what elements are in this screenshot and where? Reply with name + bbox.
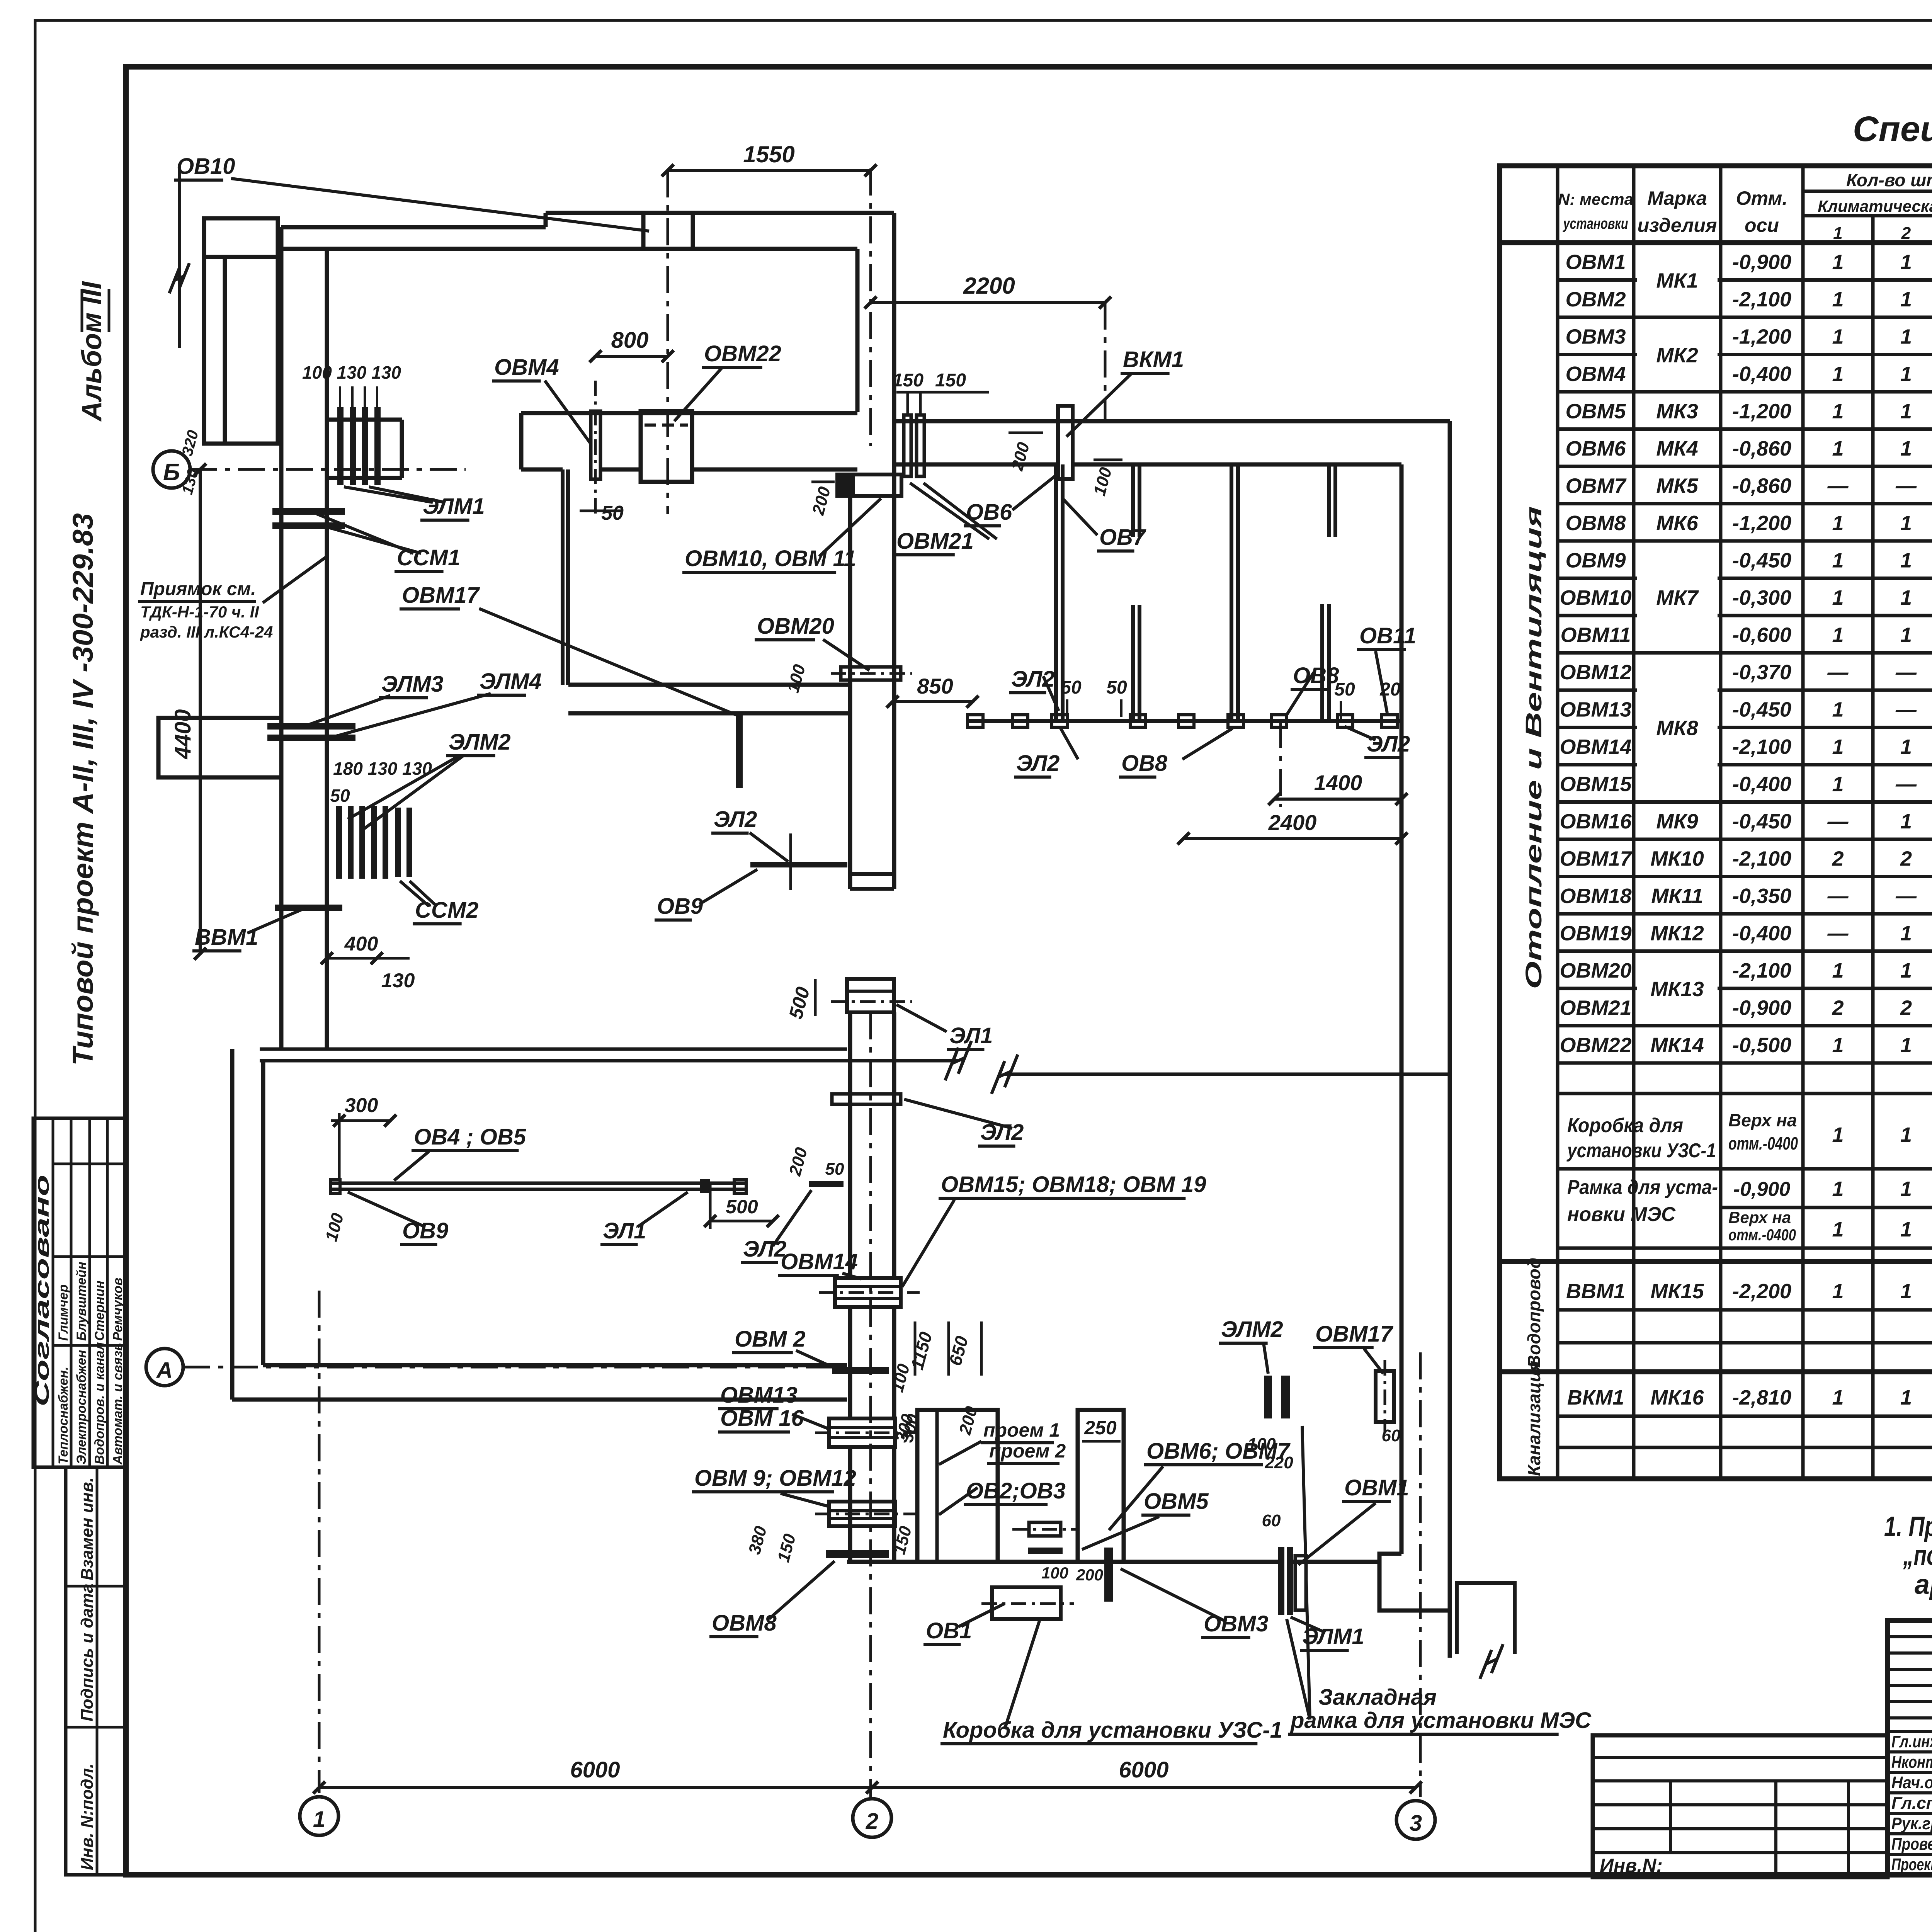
- VKM1 plate: [1058, 406, 1073, 479]
- svg-text:1: 1: [1832, 1280, 1844, 1303]
- svg-text:Кол-во штук: Кол-во штук: [1846, 170, 1932, 190]
- svg-text:Марка: Марка: [1647, 187, 1707, 209]
- svg-text:Отопление и Вентиляция: Отопление и Вентиляция: [1521, 506, 1546, 989]
- svg-text:ЭЛ2: ЭЛ2: [1016, 751, 1060, 776]
- svg-text:проем 2: проем 2: [989, 1440, 1066, 1462]
- svg-text:ЭЛМ4: ЭЛМ4: [480, 669, 542, 694]
- svg-text:разд. III л.КС4-24: разд. III л.КС4-24: [140, 623, 273, 641]
- lower plan bottom line: [847, 1560, 917, 1564]
- svg-text:1: 1: [1900, 735, 1912, 759]
- svg-text:ЭЛМ2: ЭЛМ2: [449, 730, 511, 755]
- bottom right open rect: [1457, 1583, 1515, 1654]
- svg-text:Инв. N:подл.: Инв. N:подл.: [78, 1764, 97, 1870]
- svg-text:1: 1: [1900, 400, 1912, 423]
- svg-text:—: —: [1827, 474, 1849, 497]
- svg-text:Рук.груп.: Рук.груп.: [1891, 1814, 1932, 1833]
- axis A dash line: [183, 1366, 847, 1369]
- break line between plans lower: [1005, 1073, 1450, 1076]
- svg-text:оси: оси: [1745, 214, 1779, 236]
- dash axis under OB8 opening: [1279, 721, 1282, 807]
- svg-text:новки МЭС: новки МЭС: [1567, 1203, 1676, 1226]
- svg-text:50: 50: [330, 786, 350, 806]
- svg-text:ОВМ18: ОВМ18: [1560, 884, 1631, 908]
- svg-text:250: 250: [1084, 1417, 1117, 1439]
- svg-text:1: 1: [1832, 735, 1844, 759]
- floor line of upper plan rooms: [968, 719, 1401, 723]
- svg-text:—: —: [1895, 884, 1917, 908]
- svg-text:—: —: [1827, 884, 1849, 908]
- svg-text:ОВ4 ; ОВ5: ОВ4 ; ОВ5: [414, 1124, 526, 1150]
- svg-text:200: 200: [1076, 1566, 1103, 1584]
- svg-text:ОВМ8: ОВМ8: [1565, 512, 1626, 535]
- svg-text:1: 1: [1832, 698, 1844, 721]
- svg-text:„по месту” в местах прохода: „по месту” в местах прохода вертикальных…: [1903, 1540, 1932, 1571]
- svg-text:Рамка для уста-: Рамка для уста-: [1567, 1176, 1718, 1199]
- svg-text:отм.-0400: отм.-0400: [1728, 1133, 1798, 1153]
- lower plan left wall: [230, 1049, 235, 1400]
- svg-text:1: 1: [1832, 959, 1844, 982]
- svg-text:1: 1: [1900, 959, 1912, 982]
- svg-text:А: А: [156, 1358, 173, 1383]
- svg-text:ОВМ 2: ОВМ 2: [735, 1327, 806, 1352]
- svg-text:ОВМ22: ОВМ22: [1560, 1034, 1631, 1057]
- svg-text:МК11: МК11: [1651, 884, 1703, 908]
- dims 400 130: [327, 957, 410, 960]
- svg-text:ОВ2;ОВ3: ОВ2;ОВ3: [966, 1478, 1066, 1503]
- svg-text:Коробка для: Коробка для: [1567, 1114, 1683, 1137]
- svg-text:ОВМ13: ОВМ13: [720, 1383, 798, 1408]
- svg-text:арматурных каркасов.: арматурных каркасов.: [1915, 1569, 1932, 1600]
- svg-text:1: 1: [1832, 1123, 1844, 1146]
- svg-text:6000: 6000: [1119, 1757, 1168, 1782]
- svg-text:220: 220: [1264, 1453, 1293, 1472]
- axis 2 upper dash line: [869, 168, 872, 446]
- svg-text:100: 100: [1247, 1435, 1276, 1454]
- svg-text:проем 1: проем 1: [983, 1419, 1060, 1441]
- svg-text:ОВМ19: ОВМ19: [1560, 922, 1631, 945]
- svg-text:ОВМ16: ОВМ16: [1560, 810, 1632, 833]
- svg-text:1: 1: [1900, 810, 1912, 833]
- svg-text:Б: Б: [163, 459, 180, 486]
- svg-text:ВКМ1: ВКМ1: [1567, 1386, 1624, 1409]
- svg-text:150: 150: [893, 370, 923, 391]
- partition below band: [561, 469, 565, 685]
- dimension 850: [893, 700, 973, 703]
- svg-text:6000: 6000: [570, 1757, 620, 1782]
- svg-text:ОВМ17: ОВМ17: [1315, 1321, 1394, 1347]
- svg-text:ВКМ1: ВКМ1: [1123, 347, 1184, 372]
- svg-text:ОВ8: ОВ8: [1121, 751, 1168, 776]
- svg-text:1: 1: [1900, 288, 1912, 311]
- svg-text:-0,350: -0,350: [1732, 884, 1791, 908]
- EL2 plate at central wall lower: [809, 1181, 844, 1187]
- svg-text:Типовой проект А-II, III, IV: Типовой проект А-II, III, IV -300-229.83: [67, 513, 99, 1066]
- table 1 rows: [1558, 278, 1932, 282]
- left wall inner line: [325, 249, 329, 1049]
- right exterior wall inner vertical: [1400, 464, 1404, 1074]
- margin stamp columns Взамен Подпись Инв: [66, 1467, 125, 1875]
- svg-text:-0,900: -0,900: [1732, 996, 1791, 1019]
- svg-text:130: 130: [381, 969, 415, 992]
- svg-text:1: 1: [1832, 549, 1844, 572]
- central wall left line: [855, 249, 860, 412]
- dimension 1550: [668, 169, 871, 172]
- upper plan top wall inner: [281, 247, 857, 251]
- svg-text:ЭЛМ1: ЭЛМ1: [423, 494, 485, 519]
- svg-text:50: 50: [1334, 679, 1355, 700]
- svg-text:ОВ8: ОВ8: [1293, 663, 1339, 688]
- svg-text:-0,400: -0,400: [1732, 362, 1791, 386]
- svg-text:ОВМ13: ОВМ13: [1560, 698, 1631, 721]
- interior wall band with OBM4 OBM22: [521, 411, 857, 415]
- central wall bottom cap: [850, 872, 894, 876]
- svg-text:N: места: N: места: [1558, 190, 1633, 208]
- axis 3 dash line: [1419, 1352, 1422, 1797]
- OB10 opening jambs: [641, 213, 646, 249]
- svg-text:Согласовано: Согласовано: [31, 1175, 53, 1406]
- svg-text:МК9: МК9: [1656, 810, 1698, 833]
- OB2 OB3 small plates: [1029, 1522, 1061, 1536]
- lower plan bottom wall: [232, 1398, 847, 1402]
- svg-text:МК12: МК12: [1650, 922, 1704, 945]
- OBM13 OBM16 plates: [829, 1418, 895, 1447]
- axis B circle: [153, 451, 190, 488]
- svg-text:-0,300: -0,300: [1732, 586, 1791, 609]
- svg-text:Глимчер: Глимчер: [56, 1284, 71, 1341]
- svg-text:-2,100: -2,100: [1732, 735, 1791, 759]
- svg-text:50: 50: [1061, 677, 1082, 698]
- svg-text:ЭЛ2: ЭЛ2: [980, 1120, 1024, 1145]
- svg-text:—: —: [1895, 772, 1917, 796]
- svg-text:-0,450: -0,450: [1732, 698, 1791, 721]
- svg-text:ОВМ2: ОВМ2: [1565, 288, 1626, 311]
- svg-text:ОВМ22: ОВМ22: [704, 341, 781, 366]
- title block signature rows: [1888, 1730, 1932, 1733]
- svg-text:ЭЛ2: ЭЛ2: [1367, 731, 1410, 757]
- svg-text:1: 1: [1832, 1386, 1844, 1409]
- svg-text:ОВМ14: ОВМ14: [1560, 735, 1631, 759]
- svg-text:рамка для установки МЭС: рамка для установки МЭС: [1290, 1708, 1592, 1733]
- svg-text:1: 1: [1832, 362, 1844, 386]
- EL1 block upper: [847, 979, 894, 1012]
- svg-text:МК10: МК10: [1650, 847, 1704, 870]
- svg-text:Отм.: Отм.: [1736, 187, 1788, 209]
- central wall right line: [892, 213, 896, 889]
- table 1 special rows: [1558, 1061, 1932, 1065]
- middle pillar rect: [1078, 1410, 1124, 1562]
- svg-text:2400: 2400: [1268, 810, 1317, 835]
- svg-text:1: 1: [1900, 250, 1912, 274]
- CCM1 plates: [272, 508, 345, 515]
- axis circle 2: [853, 1799, 891, 1837]
- svg-text:установки: установки: [1563, 215, 1628, 232]
- svg-text:ОВМ8: ОВМ8: [712, 1611, 777, 1636]
- svg-text:-0,370: -0,370: [1732, 661, 1791, 684]
- svg-text:Проектир.: Проектир.: [1891, 1855, 1932, 1874]
- axis circle 1: [300, 1797, 338, 1835]
- svg-text:ЭЛМ2: ЭЛМ2: [1221, 1317, 1283, 1342]
- svg-text:—: —: [1827, 661, 1849, 684]
- OBM21 plates: [904, 415, 911, 476]
- OBM22 square: [641, 411, 692, 482]
- svg-text:1: 1: [1832, 623, 1844, 646]
- svg-text:1: 1: [1900, 1034, 1912, 1057]
- left wall outer line: [279, 227, 284, 1049]
- pit extension line with break: [178, 166, 181, 348]
- svg-text:1: 1: [1832, 437, 1844, 460]
- dash centerline through OB2 area: [1012, 1528, 1078, 1531]
- svg-text:1: 1: [1832, 512, 1844, 535]
- svg-text:1: 1: [1833, 224, 1842, 243]
- svg-text:Инв.N:: Инв.N:: [1600, 1855, 1663, 1876]
- svg-text:ОВМ21: ОВМ21: [1560, 996, 1631, 1019]
- svg-text:1400: 1400: [1314, 770, 1362, 795]
- svg-text:2: 2: [866, 1809, 878, 1834]
- svg-text:-0,450: -0,450: [1732, 810, 1791, 833]
- svg-text:МК1: МК1: [1656, 269, 1698, 293]
- OB4 OB5 plate line: [331, 1182, 746, 1185]
- svg-text:ОВ11: ОВ11: [1359, 623, 1416, 648]
- svg-text:1: 1: [1832, 772, 1844, 796]
- svg-text:МК5: МК5: [1656, 474, 1698, 497]
- svg-text:Автомат. и связь: Автомат. и связь: [111, 1343, 125, 1465]
- svg-text:—: —: [1895, 474, 1917, 497]
- svg-text:2: 2: [1900, 847, 1912, 870]
- svg-text:-1,200: -1,200: [1732, 400, 1791, 423]
- ELM1 plates group upper left: [337, 407, 344, 485]
- svg-text:Закладная: Закладная: [1318, 1685, 1437, 1710]
- svg-text:ОВМ1: ОВМ1: [1344, 1475, 1409, 1500]
- CCM2 ELM2 vertical plates group: [336, 806, 342, 879]
- dimension 2200: [871, 301, 1105, 304]
- right wall step: [1379, 1554, 1450, 1611]
- svg-text:Подпись и дата: Подпись и дата: [78, 1583, 97, 1721]
- axis 1 vertical dash line: [318, 1291, 321, 1793]
- svg-text:Водопров. и канал: Водопров. и канал: [92, 1342, 107, 1464]
- svg-text:МК4: МК4: [1656, 437, 1698, 460]
- svg-text:ОВМ20: ОВМ20: [757, 614, 834, 639]
- svg-text:800: 800: [611, 328, 649, 353]
- wall band at OBM20 level: [568, 683, 850, 687]
- svg-text:ОВ10: ОВ10: [177, 154, 235, 179]
- svg-text:ОВМ 9; ОВМ12: ОВМ 9; ОВМ12: [694, 1466, 856, 1491]
- svg-text:ОВ6: ОВ6: [966, 500, 1012, 525]
- svg-text:1: 1: [1832, 1218, 1844, 1241]
- svg-text:ЭЛМ3: ЭЛМ3: [381, 672, 444, 697]
- axis 2 dash line: [869, 1012, 872, 1797]
- svg-text:1: 1: [1900, 549, 1912, 572]
- svg-text:ОВ9: ОВ9: [402, 1218, 448, 1243]
- svg-text:50: 50: [825, 1160, 844, 1179]
- top right wall inner horizontal: [894, 463, 1058, 467]
- svg-text:МК16: МК16: [1650, 1386, 1704, 1409]
- svg-text:1: 1: [1900, 512, 1912, 535]
- svg-text:1: 1: [1900, 623, 1912, 646]
- OBM14 plate: [835, 1278, 901, 1307]
- svg-text:отм.-0400: отм.-0400: [1728, 1226, 1796, 1244]
- OBM1 plates: [1278, 1547, 1284, 1615]
- OBM10 OBM11 plate: [837, 474, 901, 496]
- svg-text:ОВМ12: ОВМ12: [1560, 661, 1631, 684]
- svg-text:180 130 130: 180 130 130: [333, 759, 432, 779]
- svg-text:ОВМ4: ОВМ4: [494, 355, 559, 380]
- plate on central wall top lower: [832, 1094, 901, 1104]
- svg-text:—: —: [1895, 698, 1917, 721]
- OBM3 plate: [1104, 1548, 1113, 1602]
- axis circle 3: [1396, 1801, 1435, 1839]
- svg-text:ЭЛ2: ЭЛ2: [714, 807, 757, 832]
- svg-text:1: 1: [1832, 400, 1844, 423]
- svg-text:2: 2: [1901, 224, 1911, 243]
- svg-text:-2,200: -2,200: [1732, 1280, 1791, 1303]
- svg-text:ОВМ10, ОВМ 11: ОВМ10, ОВМ 11: [685, 546, 856, 571]
- svg-text:МК3: МК3: [1656, 400, 1698, 423]
- svg-text:Коробка для установки УЗС-1: Коробка для установки УЗС-1: [943, 1718, 1282, 1743]
- EL2 plate upper mid: [750, 862, 847, 867]
- proem block rectangles: [917, 1410, 998, 1562]
- OBM20 plate: [841, 667, 901, 680]
- svg-text:МК2: МК2: [1656, 344, 1698, 367]
- specification table 1: [1500, 166, 1932, 1479]
- svg-text:Ремчуков: Ремчуков: [111, 1277, 125, 1341]
- svg-text:Гл.инж.пр: Гл.инж.пр: [1891, 1732, 1932, 1751]
- svg-text:Верх на: Верх на: [1728, 1110, 1797, 1130]
- svg-text:-0,860: -0,860: [1732, 437, 1791, 460]
- svg-text:2: 2: [1832, 847, 1844, 870]
- svg-text:-2,100: -2,100: [1732, 847, 1791, 870]
- svg-text:Гл.спец.: Гл.спец.: [1891, 1794, 1932, 1813]
- axis B dash line: [190, 468, 466, 471]
- svg-text:ОВМ10: ОВМ10: [1560, 586, 1631, 609]
- svg-text:ОВМ20: ОВМ20: [1560, 959, 1631, 982]
- svg-text:-0,450: -0,450: [1732, 549, 1791, 572]
- title block main frame: [1888, 1621, 1932, 1875]
- svg-text:ОВМ5: ОВМ5: [1144, 1489, 1209, 1514]
- svg-text:ВВМ1: ВВМ1: [1566, 1280, 1625, 1303]
- svg-text:-1,200: -1,200: [1732, 325, 1791, 348]
- OBM9 OBM12 plates: [829, 1502, 895, 1526]
- svg-text:1: 1: [1900, 586, 1912, 609]
- svg-text:ОВМ6: ОВМ6: [1565, 437, 1626, 460]
- svg-text:50: 50: [1106, 677, 1127, 698]
- ELM3 ELM4 plates: [267, 723, 355, 730]
- svg-text:ОВ9: ОВ9: [657, 894, 703, 919]
- svg-text:1: 1: [1900, 1386, 1912, 1409]
- svg-text:—: —: [1827, 922, 1849, 945]
- svg-text:МК15: МК15: [1650, 1280, 1704, 1303]
- svg-text:-0,400: -0,400: [1732, 772, 1791, 796]
- svg-text:МК14: МК14: [1650, 1034, 1704, 1057]
- svg-text:1. При установке закладной р: 1. При установке закладной рамки, полки …: [1884, 1511, 1932, 1542]
- svg-text:1: 1: [1832, 1177, 1844, 1201]
- svg-text:—: —: [1827, 810, 1849, 833]
- OBM17 plate upper: [736, 713, 743, 788]
- svg-text:установки УЗС-1: установки УЗС-1: [1566, 1139, 1716, 1162]
- left protruding room lower: [158, 718, 281, 777]
- svg-text:ЭЛ2: ЭЛ2: [743, 1236, 786, 1262]
- svg-text:—: —: [1895, 661, 1917, 684]
- svg-text:50: 50: [601, 502, 624, 524]
- svg-text:1: 1: [313, 1807, 325, 1832]
- right exterior wall outer vertical: [1448, 421, 1452, 1074]
- svg-text:2: 2: [1832, 996, 1844, 1019]
- svg-text:60: 60: [1382, 1426, 1401, 1445]
- svg-text:ОВМ14: ОВМ14: [781, 1249, 858, 1274]
- svg-text:ОВМ3: ОВМ3: [1565, 325, 1626, 348]
- svg-text:МК7: МК7: [1656, 586, 1699, 609]
- OBM2 plate: [832, 1367, 889, 1374]
- svg-text:МК6: МК6: [1656, 512, 1698, 535]
- svg-text:500: 500: [726, 1196, 758, 1218]
- bottom dimension line: [319, 1786, 1416, 1789]
- svg-text:ОВМ11: ОВМ11: [1560, 623, 1631, 646]
- svg-text:1: 1: [1900, 922, 1912, 945]
- svg-text:-0,900: -0,900: [1733, 1178, 1791, 1201]
- svg-text:ОВМ15: ОВМ15: [1560, 772, 1632, 796]
- svg-text:ОВМ7: ОВМ7: [1565, 474, 1627, 497]
- svg-text:Теплоснабжен.: Теплоснабжен.: [56, 1366, 71, 1464]
- upper plan pit room: [204, 218, 278, 444]
- svg-text:1: 1: [1900, 325, 1912, 348]
- svg-text:-1,200: -1,200: [1732, 512, 1791, 535]
- svg-text:ОВМ21: ОВМ21: [896, 529, 974, 554]
- svg-text:Приямок см.: Приямок см.: [140, 579, 256, 599]
- svg-text:ОВМ15; ОВМ18; ОВМ 19: ОВМ15; ОВМ18; ОВМ 19: [941, 1172, 1206, 1197]
- dimension 2400: [1184, 837, 1401, 840]
- upper plan top wall outer raised part: [546, 211, 894, 215]
- upper right partitions: [1054, 464, 1058, 719]
- svg-text:ОВМ17: ОВМ17: [402, 583, 480, 608]
- svg-text:-2,100: -2,100: [1732, 959, 1791, 982]
- svg-text:Климатическая зона: Климатическая зона: [1818, 197, 1932, 215]
- break line between plans upper: [260, 1059, 958, 1063]
- svg-text:ОВМ1: ОВМ1: [1565, 250, 1626, 274]
- line between blocks: [998, 1560, 1078, 1564]
- svg-text:-2,100: -2,100: [1732, 288, 1791, 311]
- margin approval table Согласовано: [33, 1118, 125, 1467]
- svg-text:Стернин: Стернин: [92, 1281, 107, 1341]
- centerline through OBM22: [667, 170, 669, 514]
- svg-text:Водопровод: Водопровод: [1524, 1258, 1544, 1368]
- svg-text:ОВМ 16: ОВМ 16: [720, 1406, 804, 1431]
- ELM2 plates lower: [1264, 1376, 1272, 1418]
- svg-text:Нач.отд.: Нач.отд.: [1891, 1773, 1932, 1792]
- svg-text:Спецификация закладных дет: Спецификация закладных деталей.: [1853, 109, 1932, 149]
- svg-text:Канализация: Канализация: [1524, 1361, 1544, 1476]
- svg-text:Блувштейн: Блувштейн: [74, 1262, 89, 1341]
- svg-text:850: 850: [917, 674, 953, 698]
- dim 300 at OB4: [338, 1113, 341, 1179]
- svg-text:1: 1: [1900, 1123, 1912, 1146]
- OBM4 plate: [591, 411, 600, 479]
- svg-text:Электроснабжен: Электроснабжен: [74, 1350, 89, 1465]
- interior wall stub left: [327, 418, 402, 422]
- svg-text:150: 150: [935, 370, 966, 391]
- svg-text:1: 1: [1832, 586, 1844, 609]
- svg-text:1: 1: [1832, 325, 1844, 348]
- dimension 800: [595, 355, 668, 358]
- svg-text:400: 400: [344, 933, 378, 955]
- svg-text:2: 2: [1900, 996, 1912, 1019]
- svg-text:-2,810: -2,810: [1732, 1386, 1791, 1409]
- svg-text:60: 60: [1262, 1511, 1281, 1530]
- svg-text:-0,500: -0,500: [1732, 1034, 1791, 1057]
- svg-text:МК8: МК8: [1656, 717, 1698, 740]
- top right wall outer horizontal: [894, 419, 1450, 423]
- svg-text:изделия: изделия: [1638, 214, 1717, 236]
- svg-text:ОВМ5: ОВМ5: [1565, 400, 1626, 423]
- OBM8 plate: [826, 1550, 889, 1558]
